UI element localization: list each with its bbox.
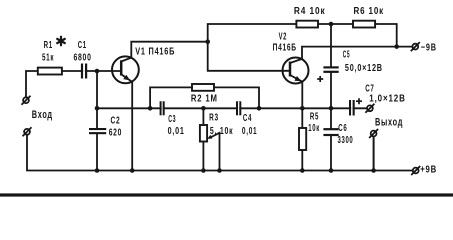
svg-text:6800: 6800 [74, 53, 92, 64]
svg-text:10к: 10к [308, 123, 320, 134]
svg-text:C4: C4 [243, 113, 252, 124]
svg-text:0,01: 0,01 [242, 126, 258, 137]
svg-text:Выход: Выход [375, 116, 403, 128]
svg-text:R4 10к: R4 10к [294, 6, 326, 17]
svg-text:R2 1М: R2 1М [191, 94, 218, 105]
svg-text:C6: C6 [338, 123, 347, 134]
svg-text:C2: C2 [111, 115, 121, 126]
svg-text:Вход: Вход [32, 109, 53, 121]
svg-text:+9В: +9В [420, 165, 437, 176]
svg-text:50,0×12В: 50,0×12В [345, 63, 383, 74]
svg-text:0,01: 0,01 [168, 126, 185, 137]
svg-text:1,0×12В: 1,0×12В [369, 94, 405, 105]
svg-text:C1: C1 [78, 40, 87, 51]
svg-text:3300: 3300 [338, 135, 354, 146]
svg-text:C3: C3 [168, 114, 176, 125]
svg-text:V1 П416Б: V1 П416Б [135, 47, 175, 58]
svg-text:620: 620 [109, 127, 122, 138]
svg-text:R6 10к: R6 10к [354, 6, 385, 17]
svg-text:5..10к: 5..10к [210, 126, 233, 137]
svg-text:−9В: −9В [421, 42, 437, 53]
svg-text:C5: C5 [343, 50, 350, 61]
svg-text:R1: R1 [44, 40, 53, 51]
svg-text:R5: R5 [310, 112, 319, 123]
svg-text:R3: R3 [209, 113, 219, 124]
svg-text:П416Б: П416Б [273, 43, 297, 54]
svg-text:V2: V2 [279, 31, 287, 42]
svg-text:51к: 51к [42, 53, 54, 64]
